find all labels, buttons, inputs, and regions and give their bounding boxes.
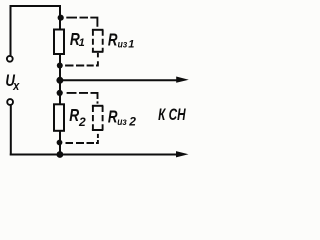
svg-text:1: 1 [79,37,85,49]
node: junction R1 bottom / Rиз1 bottom [57,63,63,69]
label Ux (input voltage) [5,72,20,93]
label R1 [70,31,85,50]
terminal circle top (Ux +) [7,56,13,62]
resistor R1 body [54,30,64,55]
svg-text:R: R [69,106,79,125]
label Rиз2 [108,108,136,129]
node: junction bus / Rиз2 top [57,90,63,96]
svg-text:1: 1 [128,39,134,51]
svg-text:R: R [108,31,118,50]
wire dashed: Rиз1 top lead (dot to box top) [66,18,97,27]
svg-text:К СН: К СН [158,106,186,125]
node: output junction to К СН [56,77,63,84]
node: junction R2 bottom / Rиз2 bottom [57,140,63,146]
svg-text:из: из [117,116,127,127]
resistor R2 body [54,104,64,131]
svg-text:из: из [118,39,128,50]
wire output arrow to К СН (middle arrow) [61,77,189,83]
wire main bus vertical top section [59,6,61,30]
insulation resistor Rиз2 body (dashed rectangle) [92,106,103,130]
wire bus between R1 and R2 [59,54,61,105]
wire dashed: Rиз2 bottom lead (box bottom to junction) [66,134,98,143]
terminal circle bottom (Ux -) [7,99,13,105]
wire bottom horizontal with arrow to К СН [10,151,189,157]
label Rиз1 [108,31,134,51]
wire dashed: Rиз1 bottom lead (box bottom to junction) [65,53,99,66]
wire left vertical to top terminal [10,5,12,55]
svg-text:x: x [12,78,20,93]
svg-text:2: 2 [128,114,136,128]
wire top horizontal (from Ux+ terminal to bus corner) [10,5,62,7]
label R2 [69,106,86,128]
wire bus below R2 to bottom wire [59,131,61,155]
svg-text:2: 2 [78,115,86,129]
node: bottom T junction [57,151,64,158]
wire left vertical from bottom terminal to bottom wire [10,105,12,155]
wire dashed: Rиз2 top lead (dot to box top) [67,93,98,104]
node: top junction (bus to Rиз1 top) [58,15,64,21]
insulation resistor Rиз1 body (dashed rectangle) [92,30,104,52]
